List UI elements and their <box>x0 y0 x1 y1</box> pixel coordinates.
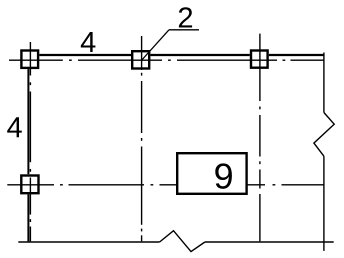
wire beam-left segment 2 <box>27 194 29 241</box>
wire beam-left segment 1 <box>27 69 29 174</box>
column K2 top-middle <box>132 51 149 68</box>
axis line horizontal A <box>9 59 324 61</box>
value label 9 <box>215 163 232 188</box>
wire right edge upper <box>323 53 325 113</box>
axis line vertical 2 <box>141 36 143 241</box>
axis line vertical 3 <box>259 34 261 242</box>
wire bottom edge right <box>205 241 334 243</box>
element box 9 <box>177 153 246 194</box>
position label 2 <box>179 7 192 27</box>
wire beam-top segment 3 <box>269 54 324 56</box>
break line right <box>314 113 334 157</box>
leader line for label 2 <box>142 30 199 60</box>
column K4 bottom-left <box>21 176 38 194</box>
axis line horizontal B <box>7 184 324 186</box>
wire beam-top segment 1 <box>39 54 131 56</box>
wire beam-top segment 2 <box>150 54 249 56</box>
dimension label 4 top <box>81 32 96 52</box>
axis line vertical 1 <box>29 42 31 241</box>
column K3 top-right <box>251 51 268 68</box>
wire bottom edge left <box>18 241 159 243</box>
dimension label 4 left <box>7 117 22 137</box>
column K1 top-left <box>21 51 38 68</box>
break line bottom <box>160 231 205 252</box>
wire right edge lower <box>323 156 325 251</box>
